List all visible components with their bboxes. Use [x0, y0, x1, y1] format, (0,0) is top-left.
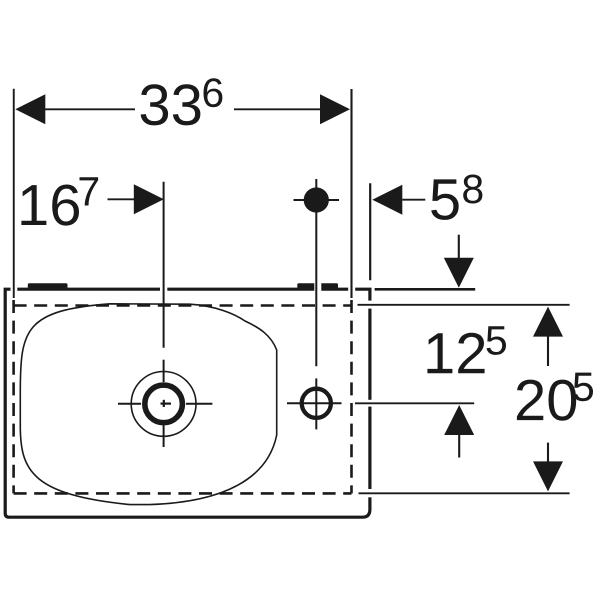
extension line left (33.6 dimension) — [13, 89, 15, 298]
tap hole crosshair vertical — [315, 378, 317, 429]
fixing tab right — [297, 283, 338, 289]
up arrow stem (12.5) — [458, 434, 460, 458]
dimension line 5.8 — [402, 199, 425, 201]
down arrow stem (20.5 bottom) — [547, 443, 549, 463]
drain crosshair horizontal right — [186, 403, 212, 405]
down arrow to rim level — [444, 258, 474, 288]
up arrow stem (20.5 top) — [547, 336, 549, 366]
tap centre line vertical — [315, 179, 317, 366]
arrowhead 16.7 — [134, 184, 164, 214]
tap dot crosshair horizontal — [294, 199, 340, 201]
drain centre tick vertical — [163, 400, 165, 407]
down arrow stem — [458, 235, 460, 259]
halo gap in right edge at bottom reference line — [366, 489, 374, 497]
up arrow to upper reference line (20.5 top) — [533, 307, 563, 337]
label 12.5 superscript — [487, 326, 507, 355]
label 16.7 superscript — [80, 177, 99, 205]
halo gap in right edge at upper reference line — [366, 301, 374, 309]
drain crosshair vertical lower — [163, 426, 165, 448]
label 33.6 — [141, 84, 201, 125]
dashed mounting outline rectangle — [14, 300, 352, 493]
drain centre line vertical — [163, 182, 165, 348]
dimension line 16.7 — [108, 198, 136, 200]
arrowhead 5.8 — [372, 185, 402, 215]
label 33.6 superscript — [204, 78, 223, 107]
extension line right (33.6 dimension) — [350, 89, 352, 298]
dashed left edge — [12, 300, 15, 493]
tap hole circle — [302, 389, 331, 418]
dimension line 33.6 left segment — [45, 108, 136, 110]
label 5.8 superscript — [463, 175, 482, 204]
halo gap in top edge at right extension line — [348, 286, 355, 293]
tap hole crosshair horizontal — [287, 402, 342, 404]
drain crosshair horizontal left — [118, 403, 141, 405]
arrowhead 33.6 right — [320, 94, 350, 124]
bottom reference line — [359, 492, 570, 494]
up arrow to middle reference line (12.5) — [444, 405, 474, 435]
label 5.8 — [431, 179, 459, 220]
label 16.7 — [21, 185, 79, 226]
halo gap in top edge at drain centre line — [160, 286, 167, 293]
drain crosshair vertical upper — [163, 360, 165, 382]
down arrow to bottom reference line (20.5 bottom) — [533, 461, 563, 491]
halo gap in right edge at middle reference line — [366, 400, 374, 407]
halo gap in top edge and tab at tap centre line — [314, 282, 321, 294]
tap hole mark (filled dot) — [304, 187, 329, 212]
upper reference line — [358, 304, 570, 306]
extension line for 5.8 dimension — [369, 183, 371, 280]
rim level short line top right — [375, 288, 476, 291]
arrowhead 33.6 left — [15, 94, 45, 124]
halo gap in top edge at left extension line — [11, 286, 18, 293]
dashed bottom edge — [14, 492, 352, 495]
dashed top edge — [14, 304, 352, 307]
dimension line 33.6 right segment — [234, 108, 321, 110]
inner bowl outline — [20, 304, 276, 505]
label 20.5 superscript — [574, 373, 594, 402]
label 12.5 — [427, 333, 484, 374]
middle reference line — [355, 402, 474, 404]
drain centre tick horizontal — [161, 403, 172, 405]
drain outer circle — [131, 372, 196, 437]
label 20.5 — [517, 380, 576, 421]
basin outer outline — [5, 289, 370, 517]
drain ring — [145, 385, 183, 423]
fixing tab left — [28, 283, 68, 289]
dashed right edge — [350, 300, 353, 493]
